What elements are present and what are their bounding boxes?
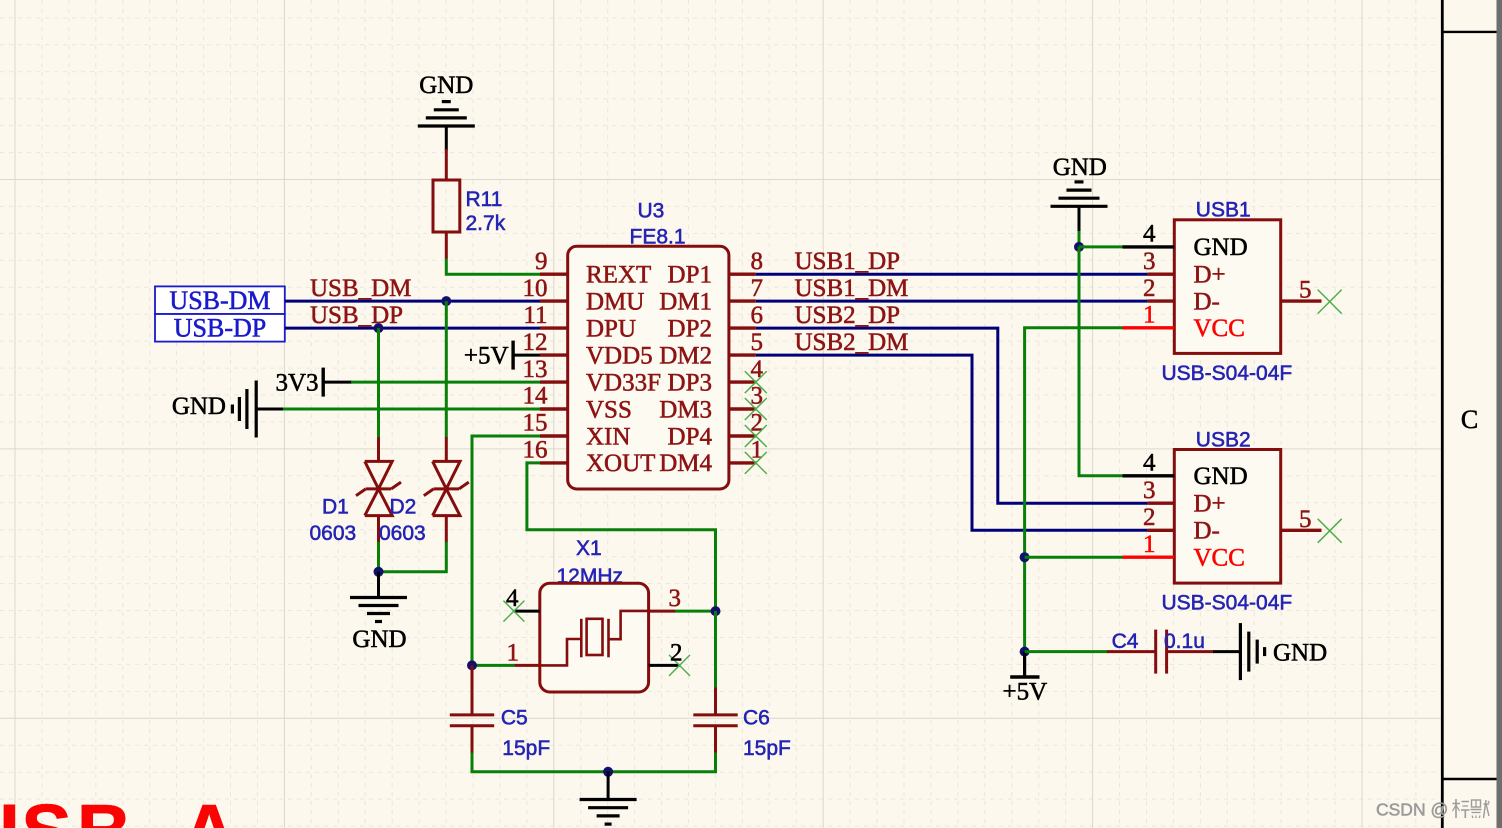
wire: [1025, 556, 1123, 559]
svg-text:USB-DP: USB-DP: [174, 314, 266, 343]
svg-text:DPU: DPU: [586, 315, 636, 342]
svg-text:4: 4: [1143, 450, 1156, 477]
svg-text:USB_DM: USB_DM: [310, 275, 411, 302]
diode D2: [424, 437, 469, 542]
svg-text:VCC: VCC: [1194, 545, 1245, 572]
label USB-S04-04F: [1162, 362, 1293, 385]
net label USB_DM: [310, 275, 411, 302]
svg-text:10: 10: [523, 275, 548, 302]
svg-text:VDD5: VDD5: [586, 342, 653, 369]
capacitor C6: [693, 688, 737, 754]
U3 pin 4: [729, 356, 767, 393]
svg-text:D-: D-: [1194, 288, 1220, 315]
svg-text:GND: GND: [1273, 640, 1327, 667]
svg-text:USB_DP: USB_DP: [310, 302, 403, 329]
svg-text:1: 1: [507, 640, 520, 667]
U3 pin name DM3: [659, 396, 712, 423]
svg-text:5: 5: [1299, 506, 1312, 533]
svg-text:GND: GND: [172, 393, 226, 420]
wire: [1079, 245, 1123, 248]
svg-text:DM2: DM2: [659, 342, 712, 369]
svg-text:D+: D+: [1194, 491, 1226, 518]
junction: [441, 296, 451, 306]
svg-text:4: 4: [506, 585, 519, 612]
X1 pin 1: [507, 640, 540, 667]
svg-text:15pF: 15pF: [743, 737, 791, 760]
svg-text:VCC: VCC: [1194, 315, 1245, 342]
svg-text:XIN: XIN: [586, 423, 630, 450]
svg-text:D2: D2: [390, 496, 417, 519]
svg-text:0603: 0603: [310, 522, 357, 545]
svg-text:USB1_DP: USB1_DP: [795, 248, 901, 275]
U3 pin 5: [729, 329, 763, 356]
svg-text:7: 7: [751, 275, 764, 302]
svg-text:1: 1: [1143, 531, 1156, 558]
USB1 pin 3 D+: [1143, 248, 1226, 289]
label X1: [576, 537, 602, 560]
power port GND (top right): [1051, 154, 1108, 232]
U3 pin name REXT: [586, 262, 651, 289]
svg-text:11: 11: [523, 302, 547, 329]
USB2 pin 5 (NC): [1281, 506, 1342, 543]
wire: [472, 664, 515, 667]
svg-text:3: 3: [669, 585, 682, 612]
port USB-DM: [155, 286, 285, 315]
sheet border: [1442, 0, 1497, 828]
wire: [445, 301, 448, 438]
label USB-S04-04F: [1162, 592, 1293, 615]
wire: [527, 463, 716, 611]
label C4: [1112, 630, 1139, 653]
net label USB1_DP: [795, 248, 901, 275]
U3 pin name XOUT: [586, 450, 655, 477]
U3 pin 11: [523, 302, 567, 329]
junction: [711, 606, 721, 616]
svg-text:REXT: REXT: [586, 262, 651, 289]
U3 pin name DM4: [659, 450, 712, 477]
svg-text:VSS: VSS: [586, 396, 632, 423]
U3 pin 10: [523, 275, 568, 302]
U3 pin 9: [535, 248, 568, 275]
U3 pin 16: [523, 437, 568, 464]
wire USB1_DP: [756, 273, 1148, 276]
U3 pin name DP1: [668, 262, 712, 289]
svg-text:DP4: DP4: [668, 423, 713, 450]
svg-text:D1: D1: [322, 496, 349, 519]
wire USB2_DM: [756, 355, 1148, 530]
svg-text:2.7k: 2.7k: [466, 212, 506, 235]
zone label C: [1461, 405, 1478, 434]
svg-text:GND: GND: [1194, 463, 1248, 490]
wire: [285, 300, 540, 303]
X1 pin 4 (NC): [503, 585, 539, 622]
X1 pin 2 (NC): [649, 640, 690, 676]
U3 pin name VDD5: [586, 342, 653, 369]
U3 pin 12: [523, 329, 568, 356]
power port GND (right of C4): [1213, 623, 1327, 680]
svg-text:14: 14: [523, 383, 549, 410]
U3 pin 14: [523, 383, 568, 410]
U3 pin name DP2: [668, 315, 712, 342]
svg-text:13: 13: [523, 356, 548, 383]
IC U3 body: [568, 246, 729, 489]
capacitor C4: [1107, 630, 1213, 674]
net label USB1_DM: [795, 275, 909, 302]
svg-text:D+: D+: [1194, 262, 1226, 289]
wire: [1025, 328, 1123, 652]
U3 pin 1: [729, 437, 767, 474]
junction: [1020, 552, 1030, 562]
wire: [283, 408, 540, 411]
crystal X1 body: [540, 583, 649, 692]
svg-text:2: 2: [1143, 504, 1156, 531]
svg-text:C5: C5: [501, 707, 528, 730]
junction: [603, 767, 613, 777]
U3 pin name DM2: [659, 342, 712, 369]
wire: [377, 542, 380, 572]
U3 pin 15: [523, 410, 568, 437]
diode D1: [356, 437, 401, 542]
U3 pin name DP3: [668, 369, 712, 396]
svg-text:DM3: DM3: [659, 396, 712, 423]
svg-text:DP2: DP2: [668, 315, 712, 342]
svg-text:15pF: 15pF: [502, 737, 550, 760]
svg-text:0.1u: 0.1u: [1164, 630, 1205, 653]
USB2 pin 2 D-: [1143, 504, 1220, 545]
junction: [374, 323, 384, 333]
net label USB2_DP: [795, 302, 901, 329]
svg-text:A: A: [182, 790, 237, 828]
U3 pin 7: [729, 275, 763, 302]
svg-text:U3: U3: [638, 200, 665, 223]
wire USB2_DP: [756, 328, 1148, 503]
wire: [445, 149, 448, 181]
wire USB1_DM: [756, 300, 1148, 303]
USB2 pin 4 GND: [1123, 450, 1248, 491]
wire: [446, 259, 540, 275]
title USB_A: [0, 790, 237, 828]
svg-text:5: 5: [1299, 277, 1312, 304]
label R11 value: [466, 188, 506, 235]
resistor R11: [433, 180, 460, 259]
svg-text:+5V: +5V: [1002, 678, 1047, 705]
svg-text:0603: 0603: [379, 522, 426, 545]
svg-text:DMU: DMU: [586, 288, 644, 315]
svg-text:GND: GND: [1194, 234, 1248, 261]
port USB-DP: [155, 314, 285, 343]
svg-text:USB-S04-04F: USB-S04-04F: [1162, 592, 1293, 615]
svg-text:XOUT: XOUT: [586, 450, 655, 477]
X1 pin 3: [649, 585, 681, 612]
svg-text:DP1: DP1: [668, 262, 712, 289]
svg-text:USB2_DM: USB2_DM: [795, 329, 909, 356]
svg-text:USB-DM: USB-DM: [169, 286, 270, 315]
svg-text:16: 16: [523, 437, 548, 464]
U3 pin 8: [729, 248, 763, 275]
power port GND (left, pin 14): [172, 381, 284, 438]
U3 pin name VSS: [586, 396, 632, 423]
svg-text:2: 2: [670, 640, 683, 667]
svg-text:3V3: 3V3: [275, 369, 318, 396]
junction: [1020, 647, 1030, 657]
wire: [714, 611, 717, 688]
power port GND (bottom): [580, 772, 637, 824]
junction: [1074, 242, 1084, 252]
svg-text:USB1_DM: USB1_DM: [795, 275, 909, 302]
wire: [472, 753, 716, 772]
wire: [285, 327, 540, 330]
wire: [351, 381, 540, 384]
USB1 pin 4 GND: [1123, 221, 1248, 262]
svg-text:4: 4: [1143, 221, 1156, 248]
label USB2: [1196, 429, 1251, 452]
label 0.1u: [1164, 630, 1205, 653]
label USB1: [1196, 199, 1251, 222]
power port GND (top): [418, 72, 475, 151]
wire: [379, 542, 447, 572]
power port +5V (bottom): [1002, 652, 1047, 706]
svg-text:U: U: [0, 790, 19, 828]
power port GND (under D1 D2): [350, 572, 407, 653]
svg-text:15: 15: [523, 410, 548, 437]
svg-text:X1: X1: [576, 537, 602, 560]
svg-text:USB1: USB1: [1196, 199, 1251, 222]
svg-text:S: S: [21, 790, 72, 828]
svg-text:D-: D-: [1194, 518, 1220, 545]
junction: [374, 567, 384, 577]
wire: [675, 610, 716, 613]
label FE8.1: [630, 226, 686, 249]
U3 pin name DP4: [668, 423, 713, 450]
svg-text:B: B: [77, 790, 132, 828]
U3 pin 3: [729, 383, 767, 420]
USB2 pin 1 VCC: [1123, 531, 1245, 572]
svg-text:C: C: [1461, 405, 1478, 434]
U3 pin name XIN: [586, 423, 630, 450]
svg-text:12: 12: [523, 329, 548, 356]
svg-text:1: 1: [1143, 302, 1156, 329]
watermark CSDN: [1376, 799, 1490, 820]
svg-text:CSDN @: CSDN @: [1376, 800, 1448, 820]
power port 3V3 (pin 13): [275, 368, 352, 397]
wire: [472, 436, 540, 665]
label D2: [379, 496, 426, 546]
U3 pin name DPU: [586, 315, 636, 342]
wire: [1025, 650, 1108, 653]
label 12MHz: [557, 565, 624, 588]
USB2 body: [1174, 450, 1280, 584]
wire: [1078, 231, 1081, 247]
svg-text:VD33F: VD33F: [586, 369, 661, 396]
USB1 pin 5 (NC): [1281, 277, 1342, 314]
USB1 pin 1 VCC: [1123, 302, 1245, 343]
svg-text:3: 3: [1143, 477, 1156, 504]
U3 pin name DMU: [586, 288, 644, 315]
svg-text:5: 5: [751, 329, 764, 356]
wire: [377, 328, 380, 438]
svg-text:9: 9: [535, 248, 548, 275]
USB1 pin 2 D-: [1143, 275, 1220, 316]
svg-text:+5V: +5V: [464, 342, 509, 369]
label C6: [743, 707, 791, 761]
svg-text:DM4: DM4: [659, 450, 712, 477]
svg-text:8: 8: [751, 248, 764, 275]
svg-text:USB2_DP: USB2_DP: [795, 302, 901, 329]
net label USB_DP: [310, 302, 403, 329]
svg-text:GND: GND: [352, 626, 406, 653]
svg-text:DP3: DP3: [668, 369, 712, 396]
U3 pin 2: [729, 410, 767, 447]
svg-text:2: 2: [1143, 275, 1156, 302]
USB2 pin 3 D+: [1143, 477, 1226, 518]
capacitor C5: [450, 665, 494, 753]
svg-text:C6: C6: [743, 707, 770, 730]
U3 pin name VD33F: [586, 369, 661, 396]
USB1 body: [1174, 220, 1280, 354]
net label USB2_DM: [795, 329, 909, 356]
svg-text:C4: C4: [1112, 630, 1139, 653]
svg-text:GND: GND: [419, 72, 473, 99]
U3 pin 13: [523, 356, 568, 383]
U3 pin 6: [729, 302, 763, 329]
power port +5V (pin 12): [464, 341, 541, 370]
svg-text:6: 6: [751, 302, 764, 329]
svg-text:GND: GND: [1053, 154, 1107, 181]
svg-text:DM1: DM1: [659, 288, 712, 315]
label C5: [501, 707, 550, 761]
label D1: [310, 496, 357, 546]
U3 pin name DM1: [659, 288, 712, 315]
svg-text:R11: R11: [466, 188, 503, 211]
wire: [1079, 247, 1123, 476]
label U3: [638, 200, 665, 223]
window edge strip: [1497, 0, 1502, 828]
svg-text:USB-S04-04F: USB-S04-04F: [1162, 362, 1293, 385]
svg-text:3: 3: [1143, 248, 1156, 275]
junction: [467, 660, 477, 670]
